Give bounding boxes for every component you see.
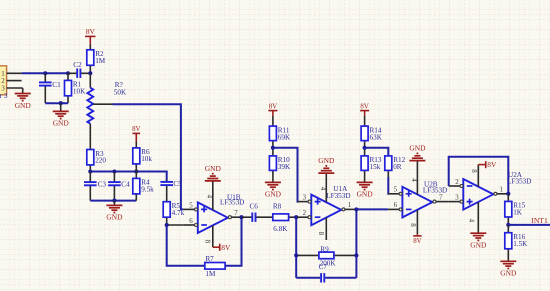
- capacitor C5: [160, 180, 182, 188]
- power 8V for R2: [85, 27, 95, 44]
- junction R9 right: [354, 253, 358, 257]
- U1B pin 7 output: [228, 210, 241, 219]
- resistor R6 pins: [135, 142, 137, 172]
- resistor R10 pins: [272, 148, 274, 178]
- wire divider to U1A pin 3: [273, 148, 299, 202]
- U2A pin 4 to GND below: [468, 202, 479, 233]
- op-amp U2A triangle: [463, 179, 493, 210]
- svg-text:4: 4: [206, 195, 213, 199]
- svg-text:C1: C1: [52, 81, 61, 89]
- U1B pin 6: [183, 218, 197, 227]
- svg-text:8V: 8V: [269, 103, 277, 110]
- wire U2A feedback loop: [449, 157, 509, 194]
- op-amp U2A labels: [507, 171, 531, 185]
- power 8V at U2B pin 8: [413, 234, 421, 245]
- svg-text:GND: GND: [53, 119, 70, 128]
- resistor R15: [505, 201, 526, 217]
- U2B pin 7 output: [433, 195, 449, 204]
- op-amp U1B labels: [220, 193, 244, 206]
- capacitor C4: [108, 181, 130, 189]
- U2B pin 4 to GND above: [410, 161, 417, 195]
- wire mid rail y171: [90, 172, 166, 181]
- svg-text:R8: R8: [273, 202, 282, 210]
- svg-text:8: 8: [409, 223, 416, 227]
- svg-text:8: 8: [204, 240, 211, 244]
- ground GND under U2A: [470, 233, 487, 249]
- junction R3/C3: [88, 169, 92, 173]
- resistor R3: [87, 150, 107, 165]
- U2A pin 1 output: [494, 187, 508, 196]
- capacitor C7 pins: [296, 277, 356, 279]
- ground GND at P1 pin 3: [15, 94, 32, 110]
- node junction at C1 top: [43, 71, 47, 75]
- svg-text:R9: R9: [320, 245, 329, 253]
- resistor R1 pins: [67, 73, 69, 103]
- U2B pin 5: [388, 187, 402, 196]
- svg-text:4: 4: [319, 187, 326, 191]
- op-amp U1A labels: [326, 185, 350, 200]
- U1B pin 5: [183, 202, 197, 211]
- potentiometer R? 50K: [87, 73, 127, 123]
- svg-text:220: 220: [95, 157, 106, 165]
- resistor R8: [273, 202, 289, 233]
- resistor R9: [319, 245, 336, 267]
- svg-text:1.5K: 1.5K: [513, 240, 528, 248]
- junction R14/R13: [363, 146, 367, 150]
- svg-text:8V: 8V: [487, 160, 497, 169]
- svg-text:0R: 0R: [393, 163, 402, 171]
- junction R6/R4: [134, 169, 138, 173]
- svg-text:LF353D: LF353D: [507, 177, 531, 185]
- svg-text:10K: 10K: [73, 88, 86, 96]
- svg-text:7: 7: [234, 210, 238, 217]
- wire feedback down-left of U1B: [167, 225, 205, 266]
- junction at GND tap: [59, 101, 63, 105]
- ground GND under R1: [53, 111, 70, 127]
- svg-text:GND: GND: [265, 190, 282, 199]
- resistor R12: [385, 156, 406, 171]
- U1B pin 4 to GND above: [206, 181, 213, 210]
- resistor R5: [163, 202, 184, 218]
- svg-text:1K: 1K: [513, 209, 523, 217]
- junction U1B output/feedback: [239, 215, 243, 219]
- U1A pin 4 to GND above: [319, 173, 326, 202]
- svg-text:C4: C4: [121, 181, 130, 189]
- pin 1 stub of P1: [7, 72, 22, 74]
- wire R5 to U1B pin6: [167, 224, 184, 226]
- op-amp U2B triangle: [402, 187, 432, 218]
- resistor R2 pins: [89, 44, 91, 73]
- svg-text:9.5k: 9.5k: [141, 186, 154, 194]
- resistor R4 pins: [135, 172, 137, 201]
- junction U2A output: [506, 192, 510, 196]
- resistor R14 pins: [364, 116, 366, 148]
- resistor R5 pins: [166, 217, 168, 225]
- resistor R7: [205, 255, 225, 278]
- svg-text:8V: 8V: [413, 238, 421, 245]
- svg-text:GND: GND: [205, 164, 222, 173]
- svg-text:6: 6: [189, 218, 193, 225]
- wire divider to R12: [365, 148, 389, 156]
- svg-text:INT1: INT1: [531, 216, 548, 225]
- capacitor C1 pins: [44, 73, 46, 103]
- svg-text:R7: R7: [205, 255, 214, 263]
- junction U1A output: [354, 207, 358, 211]
- ground GND above U1A: [318, 156, 335, 173]
- node junction at R1 top: [66, 71, 70, 75]
- connector P1 (Header 3): [0, 66, 8, 100]
- U1A pin 8 below: [317, 218, 326, 240]
- svg-text:5: 5: [189, 202, 193, 209]
- resistor R13 pins: [364, 148, 366, 178]
- svg-text:GND: GND: [409, 144, 426, 153]
- svg-text:GND: GND: [357, 190, 374, 199]
- resistor R10: [269, 156, 291, 171]
- svg-text:5: 5: [394, 187, 398, 194]
- gnd stub under R10: [272, 178, 274, 183]
- wire pot wiper to U1B pin 5: [93, 104, 183, 209]
- svg-text:6.8K: 6.8K: [273, 225, 288, 233]
- svg-text:GND: GND: [318, 156, 335, 165]
- svg-text:39K: 39K: [278, 163, 291, 171]
- ground GND under R10: [265, 182, 282, 198]
- power 8V at U1B pin 8: [213, 243, 231, 252]
- resistor R3 pins: [89, 124, 91, 172]
- svg-text:GND: GND: [106, 213, 123, 222]
- wire U1A feedback right vertical: [355, 209, 357, 277]
- ground GND above U2B: [409, 144, 426, 161]
- svg-text:4: 4: [410, 178, 417, 182]
- power 8V for R11: [268, 103, 277, 116]
- svg-text:8V: 8V: [132, 126, 140, 133]
- svg-text:C6: C6: [250, 202, 259, 210]
- resistor R14: [361, 126, 383, 141]
- svg-text:GND: GND: [500, 269, 517, 278]
- junction R8 / U1A pin2 / feedback: [294, 215, 298, 219]
- resistor R8 pins: [289, 216, 297, 218]
- ground GND above U1B: [205, 164, 222, 181]
- junction R5/feedback: [165, 223, 169, 227]
- resistor R1: [65, 80, 87, 95]
- capacitor C3 pins: [89, 172, 91, 201]
- junction R15/R16/INT1: [506, 223, 510, 227]
- resistor R16: [505, 233, 528, 249]
- power 8V at U2A pin 8: [478, 160, 497, 169]
- svg-text:8: 8: [317, 232, 324, 236]
- svg-text:4.7k: 4.7k: [172, 209, 185, 217]
- svg-text:LF353D: LF353D: [220, 198, 244, 206]
- resistor R13: [361, 156, 382, 171]
- ground GND under R16: [500, 261, 517, 277]
- capacitor C2: [73, 61, 82, 78]
- wire R12 to U2B pin 5: [387, 177, 389, 194]
- capacitor C6: [250, 202, 259, 222]
- resistor R12 pins: [387, 170, 389, 177]
- op-amp U1B triangle: [198, 202, 228, 233]
- ground GND under R13: [357, 182, 374, 198]
- node C junction C2/R2/R7: [88, 71, 92, 75]
- U1A pin 2: [297, 210, 311, 219]
- svg-text:GND: GND: [470, 241, 487, 250]
- gnd stub under R13: [364, 178, 366, 183]
- svg-text:3: 3: [455, 195, 459, 202]
- resistor R15 pins: [507, 194, 509, 225]
- svg-text:8V: 8V: [221, 243, 231, 252]
- svg-text:2: 2: [455, 179, 459, 186]
- svg-text:2: 2: [1, 78, 5, 85]
- wire R7 right to U1B output: [225, 217, 241, 266]
- svg-text:63K: 63K: [370, 133, 383, 141]
- U2A pin 2: [449, 179, 463, 188]
- svg-text:C7: C7: [319, 263, 328, 271]
- svg-text:1M: 1M: [205, 270, 216, 278]
- gnd stub under C4: [113, 201, 115, 206]
- junction R9 left: [294, 253, 298, 257]
- U2B pin 8 to 8V below: [409, 210, 418, 234]
- svg-text:4: 4: [468, 219, 475, 223]
- svg-text:10k: 10k: [141, 155, 152, 163]
- resistor R11 pins: [272, 116, 274, 148]
- junction R11/R10 divider: [271, 146, 275, 150]
- wire input net from P1 pin1 to C2: [22, 72, 68, 74]
- ground GND under C4: [106, 205, 123, 221]
- svg-text:6: 6: [394, 202, 398, 209]
- wire net INT1 output: [508, 224, 550, 226]
- svg-text:50K: 50K: [114, 88, 127, 96]
- power 8V for R14: [360, 103, 369, 116]
- svg-text:8: 8: [470, 169, 477, 173]
- resistor R6: [133, 148, 153, 164]
- U1B pin 8 to 8V below: [204, 225, 213, 247]
- capacitor C2 pins: [68, 72, 90, 74]
- resistor R11: [269, 126, 291, 141]
- svg-text:C3: C3: [98, 181, 107, 189]
- wire C1/R1 bottom to ground: [45, 102, 68, 104]
- resistor R16 pins: [507, 225, 509, 261]
- wire U1A output to U2B pin 6: [356, 208, 388, 210]
- U2B pin 6: [388, 202, 402, 211]
- power 8V for R6: [132, 126, 140, 141]
- U1A pin 3: [298, 194, 312, 203]
- junction gnd tap under C4: [112, 199, 116, 203]
- svg-text:2: 2: [303, 210, 307, 217]
- svg-text:LF353D: LF353D: [423, 186, 447, 194]
- resistor R4: [133, 178, 154, 194]
- resistor R9 pins: [296, 254, 356, 256]
- op-amp U1A triangle: [311, 195, 341, 226]
- svg-text:15k: 15k: [370, 163, 381, 171]
- svg-text:7: 7: [439, 195, 443, 202]
- svg-text:1: 1: [500, 187, 504, 194]
- svg-text:1: 1: [348, 202, 352, 209]
- svg-text:Header 3: Header 3: [0, 92, 8, 100]
- svg-text:C5: C5: [173, 180, 182, 188]
- wire bottom rail to gnd: [90, 200, 136, 202]
- capacitor C5 pins: [166, 180, 168, 202]
- resistor R2: [87, 50, 106, 66]
- op-amp U2B labels: [423, 180, 447, 194]
- svg-text:69K: 69K: [278, 133, 291, 141]
- wire U1A feedback left vertical: [295, 217, 297, 278]
- svg-text:8V: 8V: [360, 103, 368, 110]
- capacitor C4 pins: [113, 172, 115, 201]
- svg-text:1M: 1M: [95, 57, 106, 65]
- svg-text:8V: 8V: [86, 27, 96, 36]
- junction C4 top: [112, 169, 116, 173]
- capacitor C7: [319, 263, 328, 282]
- U1A pin 1 output: [342, 202, 357, 211]
- svg-text:1: 1: [1, 71, 5, 78]
- U2A pin 8 to 8V right: [470, 165, 478, 187]
- capacitor C6 pins: [242, 216, 273, 218]
- U2A pin 3: [449, 195, 463, 204]
- capacitor C1: [39, 81, 61, 89]
- capacitor C3: [84, 181, 106, 189]
- svg-text:LF353D: LF353D: [326, 192, 350, 200]
- svg-text:GND: GND: [15, 101, 32, 110]
- svg-text:C2: C2: [73, 61, 82, 69]
- pin 3 stub of P1: [7, 88, 23, 94]
- svg-text:3: 3: [303, 194, 307, 201]
- pin 2 stub of P1: [7, 80, 22, 82]
- gnd stub: [60, 103, 62, 111]
